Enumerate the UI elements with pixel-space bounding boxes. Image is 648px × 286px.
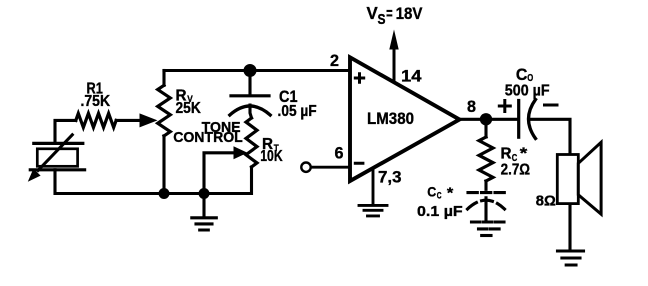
svg-text:8Ω: 8Ω [536, 192, 556, 209]
svg-text:LM380: LM380 [367, 110, 414, 128]
svg-text:=: = [386, 4, 393, 23]
svg-text:10K: 10K [260, 148, 283, 165]
svg-text:S: S [378, 12, 386, 28]
svg-text:C: C [437, 191, 442, 202]
svg-text:R: R [501, 146, 512, 163]
svg-text:.75K: .75K [81, 93, 111, 110]
svg-text:18V: 18V [396, 4, 423, 23]
svg-text:500 µF: 500 µF [505, 82, 550, 99]
svg-text:CONTROL: CONTROL [173, 129, 243, 146]
svg-text:C: C [516, 65, 528, 84]
svg-text:8: 8 [467, 97, 476, 116]
svg-text:14: 14 [401, 66, 422, 85]
svg-text:*: * [447, 186, 454, 202]
svg-text:6: 6 [335, 144, 344, 163]
svg-text:*: * [520, 146, 528, 163]
svg-text:25K: 25K [176, 100, 202, 117]
svg-text:2.7Ω: 2.7Ω [501, 162, 531, 179]
svg-text:C: C [427, 185, 436, 200]
svg-text:2: 2 [330, 51, 339, 70]
svg-text:V: V [367, 3, 378, 23]
svg-text:7,3: 7,3 [378, 168, 402, 187]
svg-text:0.1 µF: 0.1 µF [417, 203, 463, 220]
svg-text:.05 µF: .05 µF [278, 103, 317, 120]
